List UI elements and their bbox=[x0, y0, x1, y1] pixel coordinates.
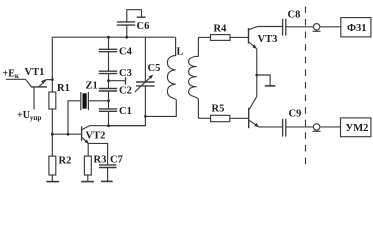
capacitor C8 bbox=[283, 19, 286, 36]
wire VT2 collector to stack bottom bbox=[90, 125, 146, 127]
svg-text:C6: C6 bbox=[137, 21, 150, 32]
block UM2 bbox=[341, 118, 371, 137]
wire C9 to terminal bbox=[286, 126, 313, 128]
svg-text:C3: C3 bbox=[119, 68, 132, 79]
node row junction dot at R1/R2 bbox=[51, 133, 54, 136]
ground chassis bar under C7 bbox=[101, 180, 113, 182]
svg-text:R1: R1 bbox=[57, 83, 70, 94]
node C5 bottom junction bbox=[144, 115, 147, 118]
wire VT2 emitter node down to R3 bbox=[87, 143, 89, 156]
node stack bottom junction bbox=[107, 124, 110, 127]
resistor R5 bbox=[211, 115, 230, 121]
wire R4 to VT3 base bbox=[230, 36, 249, 38]
transistor VT1 bbox=[26, 79, 53, 109]
svg-text:R5: R5 bbox=[212, 104, 225, 115]
ground chassis bar mid bbox=[265, 85, 275, 87]
capacitor C5 variable bbox=[135, 37, 155, 116]
wire junction to L bottom bbox=[145, 100, 176, 116]
wire node row to VT2 base bbox=[52, 133, 81, 135]
wire C8 to terminal bbox=[286, 26, 313, 28]
dashed separation line bbox=[305, 6, 307, 170]
svg-text:C1: C1 bbox=[119, 106, 132, 117]
wire VT3 collector to C8 bbox=[258, 26, 282, 28]
resistor R4 bbox=[211, 35, 231, 41]
capacitor C4 bbox=[99, 49, 117, 51]
svg-text:C4: C4 bbox=[119, 47, 133, 58]
wire Z1 to stack bbox=[88, 100, 108, 102]
block F31 bbox=[341, 18, 371, 37]
wire left drop from rail to VT1 collector node and R1 bbox=[51, 37, 53, 92]
svg-text:R3: R3 bbox=[94, 155, 107, 166]
svg-text:C8: C8 bbox=[288, 10, 301, 21]
wire C7 to ground bbox=[107, 168, 109, 182]
wire stack vertical segments bbox=[108, 37, 110, 49]
svg-text:Z1: Z1 bbox=[86, 81, 98, 92]
wire top rail bbox=[52, 36, 175, 38]
capacitor C6 bbox=[117, 10, 146, 38]
capacitor C7 bbox=[99, 165, 117, 168]
wire stack bottom link bbox=[109, 116, 146, 125]
wire tap with end bar bbox=[109, 80, 126, 82]
svg-text:R4: R4 bbox=[214, 24, 228, 35]
wire secondary top to R4 bbox=[198, 36, 210, 38]
wire R3 to ground bbox=[87, 175, 89, 181]
wire VT2 emitter to C7 branch bbox=[88, 143, 107, 164]
terminal circle bottom bbox=[313, 124, 319, 130]
svg-text:C2: C2 bbox=[119, 86, 132, 97]
wire riser to Z1 bbox=[68, 101, 81, 134]
wire secondary bottom to R5 bbox=[198, 117, 210, 119]
transistor VT2 bbox=[82, 126, 90, 144]
wire terminal to F31 box bbox=[320, 26, 341, 28]
inductor L primary winding bbox=[167, 37, 176, 100]
transformer secondary winding bbox=[189, 37, 199, 118]
node tap junction between C3 and C2 bbox=[107, 79, 110, 82]
ground chassis bar under R2 bbox=[46, 181, 59, 183]
wire R1 to node row bbox=[51, 109, 53, 156]
capacitor C9 bbox=[283, 119, 286, 137]
capacitor C1 bbox=[99, 109, 117, 111]
ground chassis bar under R3 bbox=[81, 181, 94, 183]
wire +Ek input bbox=[6, 78, 26, 80]
svg-text:R2: R2 bbox=[59, 156, 72, 167]
wire VT3 emitter rail down bbox=[256, 48, 258, 96]
node VT1 collector junction bbox=[51, 78, 54, 81]
resistor R1 bbox=[49, 92, 56, 109]
crystal Z1 bbox=[81, 92, 89, 110]
transistor VT3 bottom bbox=[249, 96, 259, 128]
svg-text:УМ2: УМ2 bbox=[346, 123, 369, 134]
wire chassis stub bbox=[257, 75, 270, 86]
svg-text:C5: C5 bbox=[148, 63, 161, 74]
wire R5 to VT3 bottom base bbox=[230, 117, 249, 119]
svg-text:C9: C9 bbox=[289, 109, 302, 120]
terminal circle top bbox=[313, 24, 319, 30]
wire R2 to ground bbox=[51, 175, 53, 181]
transistor VT3 top bbox=[249, 26, 259, 49]
node chassis stub junction bbox=[255, 74, 258, 77]
svg-text:Ф31: Ф31 bbox=[347, 23, 367, 34]
svg-text:VT1: VT1 bbox=[25, 67, 45, 78]
capacitor C2 bbox=[99, 89, 117, 92]
node Z1 riser junction bbox=[67, 133, 70, 136]
node Z1-stack junction bbox=[107, 99, 110, 102]
svg-text:C7: C7 bbox=[110, 155, 123, 166]
svg-text:VT2: VT2 bbox=[86, 131, 106, 142]
node rail-C6 junction bbox=[125, 36, 128, 39]
wire VT3 bottom emitter to C9 bbox=[258, 126, 282, 128]
resistor R2 bbox=[49, 156, 56, 175]
svg-text:VT3: VT3 bbox=[258, 34, 278, 45]
wire terminal to UM2 box bbox=[320, 126, 341, 128]
resistor R3 bbox=[84, 156, 91, 175]
svg-text:L: L bbox=[177, 47, 184, 58]
node rail-stack junction bbox=[107, 36, 110, 39]
capacitor C3 bbox=[99, 71, 117, 73]
